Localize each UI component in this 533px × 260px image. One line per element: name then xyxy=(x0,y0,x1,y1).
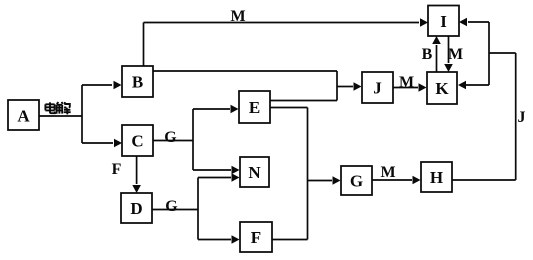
wire B right xyxy=(153,70,337,72)
wire B top feedback vertical xyxy=(143,23,145,67)
wire arrow into F xyxy=(198,235,240,244)
box F xyxy=(240,222,272,252)
svg-text:J: J xyxy=(518,109,526,126)
wire arrow I down to K xyxy=(444,36,453,72)
box C xyxy=(122,125,153,156)
svg-text:N: N xyxy=(248,163,261,182)
box J xyxy=(362,72,393,103)
box D xyxy=(121,193,152,223)
box K xyxy=(427,72,457,104)
svg-text:M: M xyxy=(399,74,414,91)
wire arrow into N upper xyxy=(193,166,240,175)
wire arrow J to K xyxy=(393,83,427,92)
svg-text:E: E xyxy=(249,98,260,117)
电 xyxy=(49,102,51,111)
svg-text:J: J xyxy=(373,79,382,98)
label dianjie (electrolysis) drawn glyphs xyxy=(45,102,70,114)
svg-text:K: K xyxy=(435,79,449,98)
wire arrow into B xyxy=(82,81,122,90)
svg-text:H: H xyxy=(430,168,443,187)
svg-text:B: B xyxy=(132,73,143,92)
wire D right G line xyxy=(152,209,198,211)
box A xyxy=(8,100,39,130)
wire C right G line xyxy=(153,140,193,142)
wire H right xyxy=(452,179,516,181)
wire C branch vertical xyxy=(192,109,194,170)
svg-text:G: G xyxy=(164,129,177,146)
wire vertical join B and E xyxy=(336,71,338,101)
box I xyxy=(428,6,459,37)
wire right feedback vertical short xyxy=(488,22,490,85)
wire E out lower xyxy=(270,107,308,109)
wire split vertical xyxy=(81,85,83,143)
box G xyxy=(341,166,372,195)
wire arrow C down to D xyxy=(132,156,141,193)
wire middle bus vertical xyxy=(307,108,309,240)
wire A to split xyxy=(39,115,82,117)
svg-text:G: G xyxy=(165,198,178,215)
wire arrow into N lower xyxy=(198,173,240,182)
wire arrow G to H xyxy=(372,176,421,185)
wire F out xyxy=(272,239,308,241)
box H xyxy=(421,162,452,192)
wire feedback junction horizontal xyxy=(489,52,516,54)
svg-text:M: M xyxy=(380,164,395,181)
svg-text:C: C xyxy=(131,132,143,151)
svg-text:F: F xyxy=(251,228,261,247)
wire arrow into C xyxy=(82,139,122,148)
svg-text:I: I xyxy=(440,12,447,31)
wire D branch vertical xyxy=(197,178,199,240)
wire arrow into G xyxy=(308,176,341,185)
svg-text:M: M xyxy=(230,8,245,25)
wire arrow into I right side xyxy=(459,18,489,27)
svg-text:F: F xyxy=(112,161,122,178)
svg-text:B: B xyxy=(422,46,433,63)
box E xyxy=(239,91,270,123)
svg-text:D: D xyxy=(130,199,142,218)
解 xyxy=(57,102,63,104)
wire arrow into J xyxy=(337,82,362,91)
svg-text:A: A xyxy=(17,107,30,126)
svg-text:M: M xyxy=(448,46,463,63)
box N xyxy=(240,157,269,187)
wire arrow into E xyxy=(193,105,239,114)
wire right feedback vertical long xyxy=(515,53,517,180)
wire arrow into K right side xyxy=(458,81,489,90)
wire arrow K up to I xyxy=(432,36,441,72)
wire top M line arrow into I xyxy=(144,18,429,27)
box B xyxy=(122,66,153,97)
wire E out upper xyxy=(270,100,337,102)
svg-text:G: G xyxy=(350,172,363,191)
